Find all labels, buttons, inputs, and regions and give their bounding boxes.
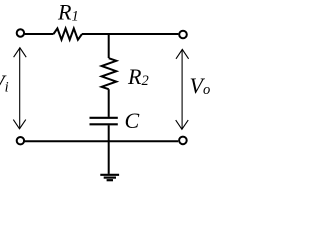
bottom wire bbox=[25, 140, 179, 142]
wire top-right segment bbox=[82, 33, 178, 35]
resistor R1 bbox=[54, 28, 83, 39]
Vi arrow bbox=[13, 48, 26, 129]
resistor R2 bbox=[102, 58, 117, 89]
terminal circle bottom-right bbox=[179, 137, 187, 145]
terminal circle bottom-left bbox=[17, 137, 24, 144]
wire R2 to capacitor bbox=[108, 89, 110, 117]
terminal circle top-right bbox=[179, 31, 187, 39]
wire capacitor to ground bbox=[108, 125, 110, 174]
terminal circle top-left bbox=[17, 29, 24, 36]
ground bbox=[100, 175, 119, 180]
svg-text:i: i bbox=[5, 79, 9, 95]
Vo arrow bbox=[176, 49, 189, 129]
wire top-left segment bbox=[25, 33, 54, 35]
svg-text:C: C bbox=[125, 108, 140, 133]
capacitor C bbox=[90, 118, 118, 125]
node junction wire down from top wire bbox=[108, 33, 110, 58]
